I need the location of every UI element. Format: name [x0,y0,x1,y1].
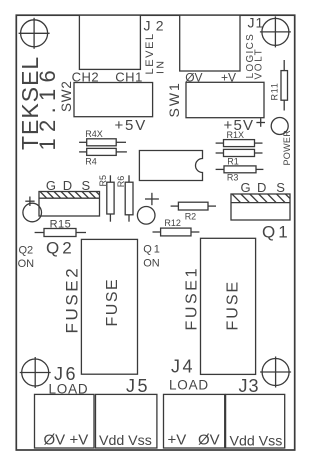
svg-text:J2: J2 [144,18,169,34]
svg-text:J5: J5 [126,376,150,396]
connector J3 block [226,394,285,448]
resistor R6 [125,175,133,221]
svg-text:FUSE2: FUSE2 [63,266,82,334]
svg-text:Vdd Vss: Vdd Vss [99,433,152,449]
svg-text:ØV: ØV [198,432,220,449]
svg-text:POWER: POWER [282,130,292,166]
svg-text:G: G [241,180,251,195]
mounting hole bottom-right [260,357,291,388]
connector J1 block [180,15,240,71]
resistor R15 [35,229,86,237]
pad circle left [23,203,42,222]
resistor R5 [107,175,114,221]
svg-text:S: S [276,180,285,195]
svg-text:G: G [46,178,56,193]
resistor R4X [79,139,126,146]
svg-text:Q2: Q2 [46,239,75,258]
resistor R2 [171,202,216,210]
svg-text:J4: J4 [171,357,195,377]
svg-text:R1: R1 [227,157,239,167]
svg-text:LOAD: LOAD [169,378,209,393]
pad circle right (power) [271,118,288,135]
svg-text:R6: R6 [116,176,126,188]
svg-text:FUSE1: FUSE1 [184,266,201,331]
svg-text:R2: R2 [185,212,197,222]
svg-text:+5V: +5V [115,117,148,134]
fuse holder FUSE2 block [81,239,137,374]
svg-text:Vdd Vss: Vdd Vss [230,434,283,450]
svg-text:SW2: SW2 [59,80,74,112]
mounting hole top-right [260,16,291,47]
svg-text:D: D [63,178,72,193]
svg-text:ON: ON [143,258,160,270]
svg-text:S: S [82,178,91,193]
resistor R1X [216,140,263,147]
connector J2 block [79,15,140,69]
svg-text:D: D [257,180,266,195]
resistor R1 [216,149,263,156]
switch SW1 block [186,82,264,117]
resistor R12 [153,228,200,236]
connector J4 block [164,394,225,448]
svg-text:R1X: R1X [227,130,245,140]
resistor R4 [79,148,127,155]
via + mid [145,193,159,205]
svg-text:R11: R11 [270,82,280,100]
svg-text:ØV: ØV [44,432,66,449]
svg-text:R4X: R4X [85,129,103,139]
svg-text:Q1: Q1 [143,244,162,256]
svg-text:+V: +V [168,432,187,449]
svg-text:IN: IN [155,59,167,75]
svg-text:Q2: Q2 [19,245,34,257]
mounting hole bottom-left [20,357,51,388]
svg-text:Q1: Q1 [262,223,291,242]
fuse holder FUSE1 block [201,238,256,374]
transistor Q2 tab [39,192,100,217]
connector J6 block [35,394,95,448]
svg-text:12.16: 12.16 [35,64,60,151]
svg-text:FUSE: FUSE [225,280,242,331]
svg-text:+V: +V [70,432,89,449]
switch SW2 block [74,83,153,117]
pad circle mid [137,207,155,225]
resistor R11 [281,60,288,111]
svg-text:J3: J3 [239,376,260,396]
svg-text:R12: R12 [164,218,181,228]
transistor Q1 tab [231,194,290,220]
connector J5 block [96,394,157,448]
svg-text:FUSE: FUSE [104,278,121,327]
svg-text:VOLT: VOLT [254,48,265,80]
IC U1 [139,151,202,181]
svg-text:ON: ON [18,258,35,270]
svg-text:R4: R4 [85,156,97,166]
mounting hole top-left [19,18,50,49]
svg-text:J1: J1 [248,15,265,31]
resistor R3 [216,166,264,173]
via + left [25,197,34,207]
svg-text:R3: R3 [227,173,239,183]
via + right [256,118,265,127]
svg-text:SW1: SW1 [166,81,182,117]
